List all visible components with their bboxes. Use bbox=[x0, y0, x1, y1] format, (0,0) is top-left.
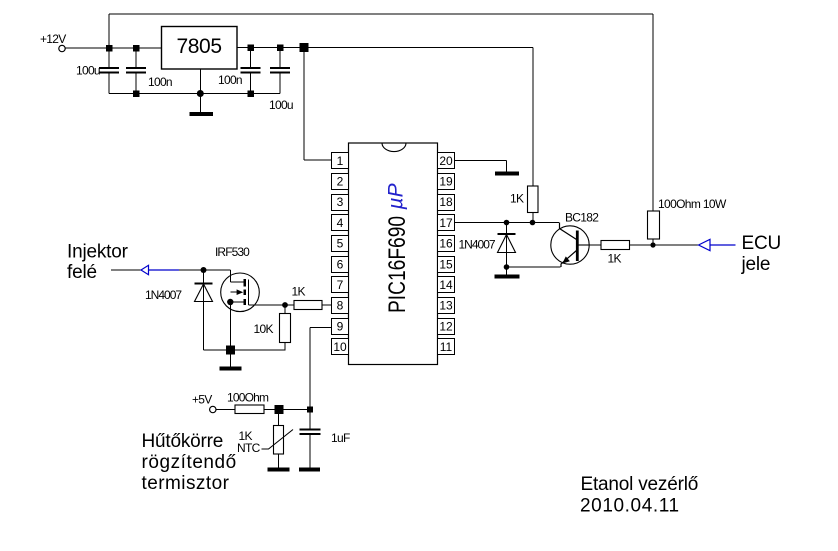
svg-text:11: 11 bbox=[440, 340, 453, 354]
svg-text:1: 1 bbox=[337, 154, 344, 168]
svg-text:16: 16 bbox=[439, 237, 453, 251]
svg-text:18: 18 bbox=[439, 195, 453, 209]
svg-text:100Ohm 10W: 100Ohm 10W bbox=[658, 197, 727, 211]
svg-text:100u: 100u bbox=[76, 64, 100, 78]
svg-text:15: 15 bbox=[439, 257, 453, 271]
svg-text:100n: 100n bbox=[218, 73, 242, 87]
svg-text:PIC16F690: PIC16F690 bbox=[383, 216, 411, 313]
svg-text:jele: jele bbox=[741, 254, 771, 275]
svg-text:8: 8 bbox=[337, 299, 344, 313]
svg-text:4: 4 bbox=[337, 216, 344, 230]
svg-text:+5V: +5V bbox=[192, 393, 212, 407]
svg-text:+12V: +12V bbox=[40, 32, 66, 46]
svg-text:rögzítendő: rögzítendő bbox=[142, 452, 237, 473]
svg-text:20: 20 bbox=[439, 154, 453, 168]
svg-text:10: 10 bbox=[333, 340, 347, 354]
svg-text:13: 13 bbox=[439, 299, 453, 313]
svg-text:Hűtőkörre: Hűtőkörre bbox=[142, 431, 224, 452]
svg-text:100Ohm: 100Ohm bbox=[227, 391, 269, 405]
svg-text:1K: 1K bbox=[608, 252, 622, 266]
svg-text:1uF: 1uF bbox=[331, 431, 350, 445]
svg-text:Etanol vezérlő: Etanol vezérlő bbox=[581, 474, 699, 495]
svg-text:termisztor: termisztor bbox=[142, 473, 230, 494]
svg-text:14: 14 bbox=[439, 278, 453, 292]
svg-text:12: 12 bbox=[439, 319, 453, 333]
svg-text:100n: 100n bbox=[148, 75, 172, 89]
svg-text:17: 17 bbox=[439, 216, 453, 230]
svg-text:felé: felé bbox=[67, 262, 97, 283]
svg-text:IRF530: IRF530 bbox=[215, 245, 250, 259]
svg-text:3: 3 bbox=[337, 195, 344, 209]
svg-text:100u: 100u bbox=[269, 98, 293, 112]
svg-text:NTC: NTC bbox=[237, 441, 261, 455]
svg-text:10K: 10K bbox=[254, 322, 274, 336]
svg-text:Injektor: Injektor bbox=[67, 242, 129, 263]
svg-text:1K: 1K bbox=[292, 285, 306, 299]
svg-text:5: 5 bbox=[337, 237, 344, 251]
svg-text:µP: µP bbox=[385, 183, 408, 210]
svg-text:1N4007: 1N4007 bbox=[145, 288, 182, 302]
svg-text:1N4007: 1N4007 bbox=[459, 238, 496, 252]
svg-text:6: 6 bbox=[337, 257, 344, 271]
svg-text:19: 19 bbox=[439, 175, 453, 189]
svg-text:2010.04.11: 2010.04.11 bbox=[580, 496, 680, 517]
svg-text:9: 9 bbox=[337, 319, 344, 333]
svg-text:7: 7 bbox=[337, 278, 344, 292]
svg-text:ECU: ECU bbox=[742, 233, 782, 254]
svg-text:2: 2 bbox=[337, 175, 344, 189]
svg-text:1K: 1K bbox=[510, 192, 524, 206]
svg-text:BC182: BC182 bbox=[565, 211, 599, 225]
svg-text:7805: 7805 bbox=[177, 35, 222, 58]
